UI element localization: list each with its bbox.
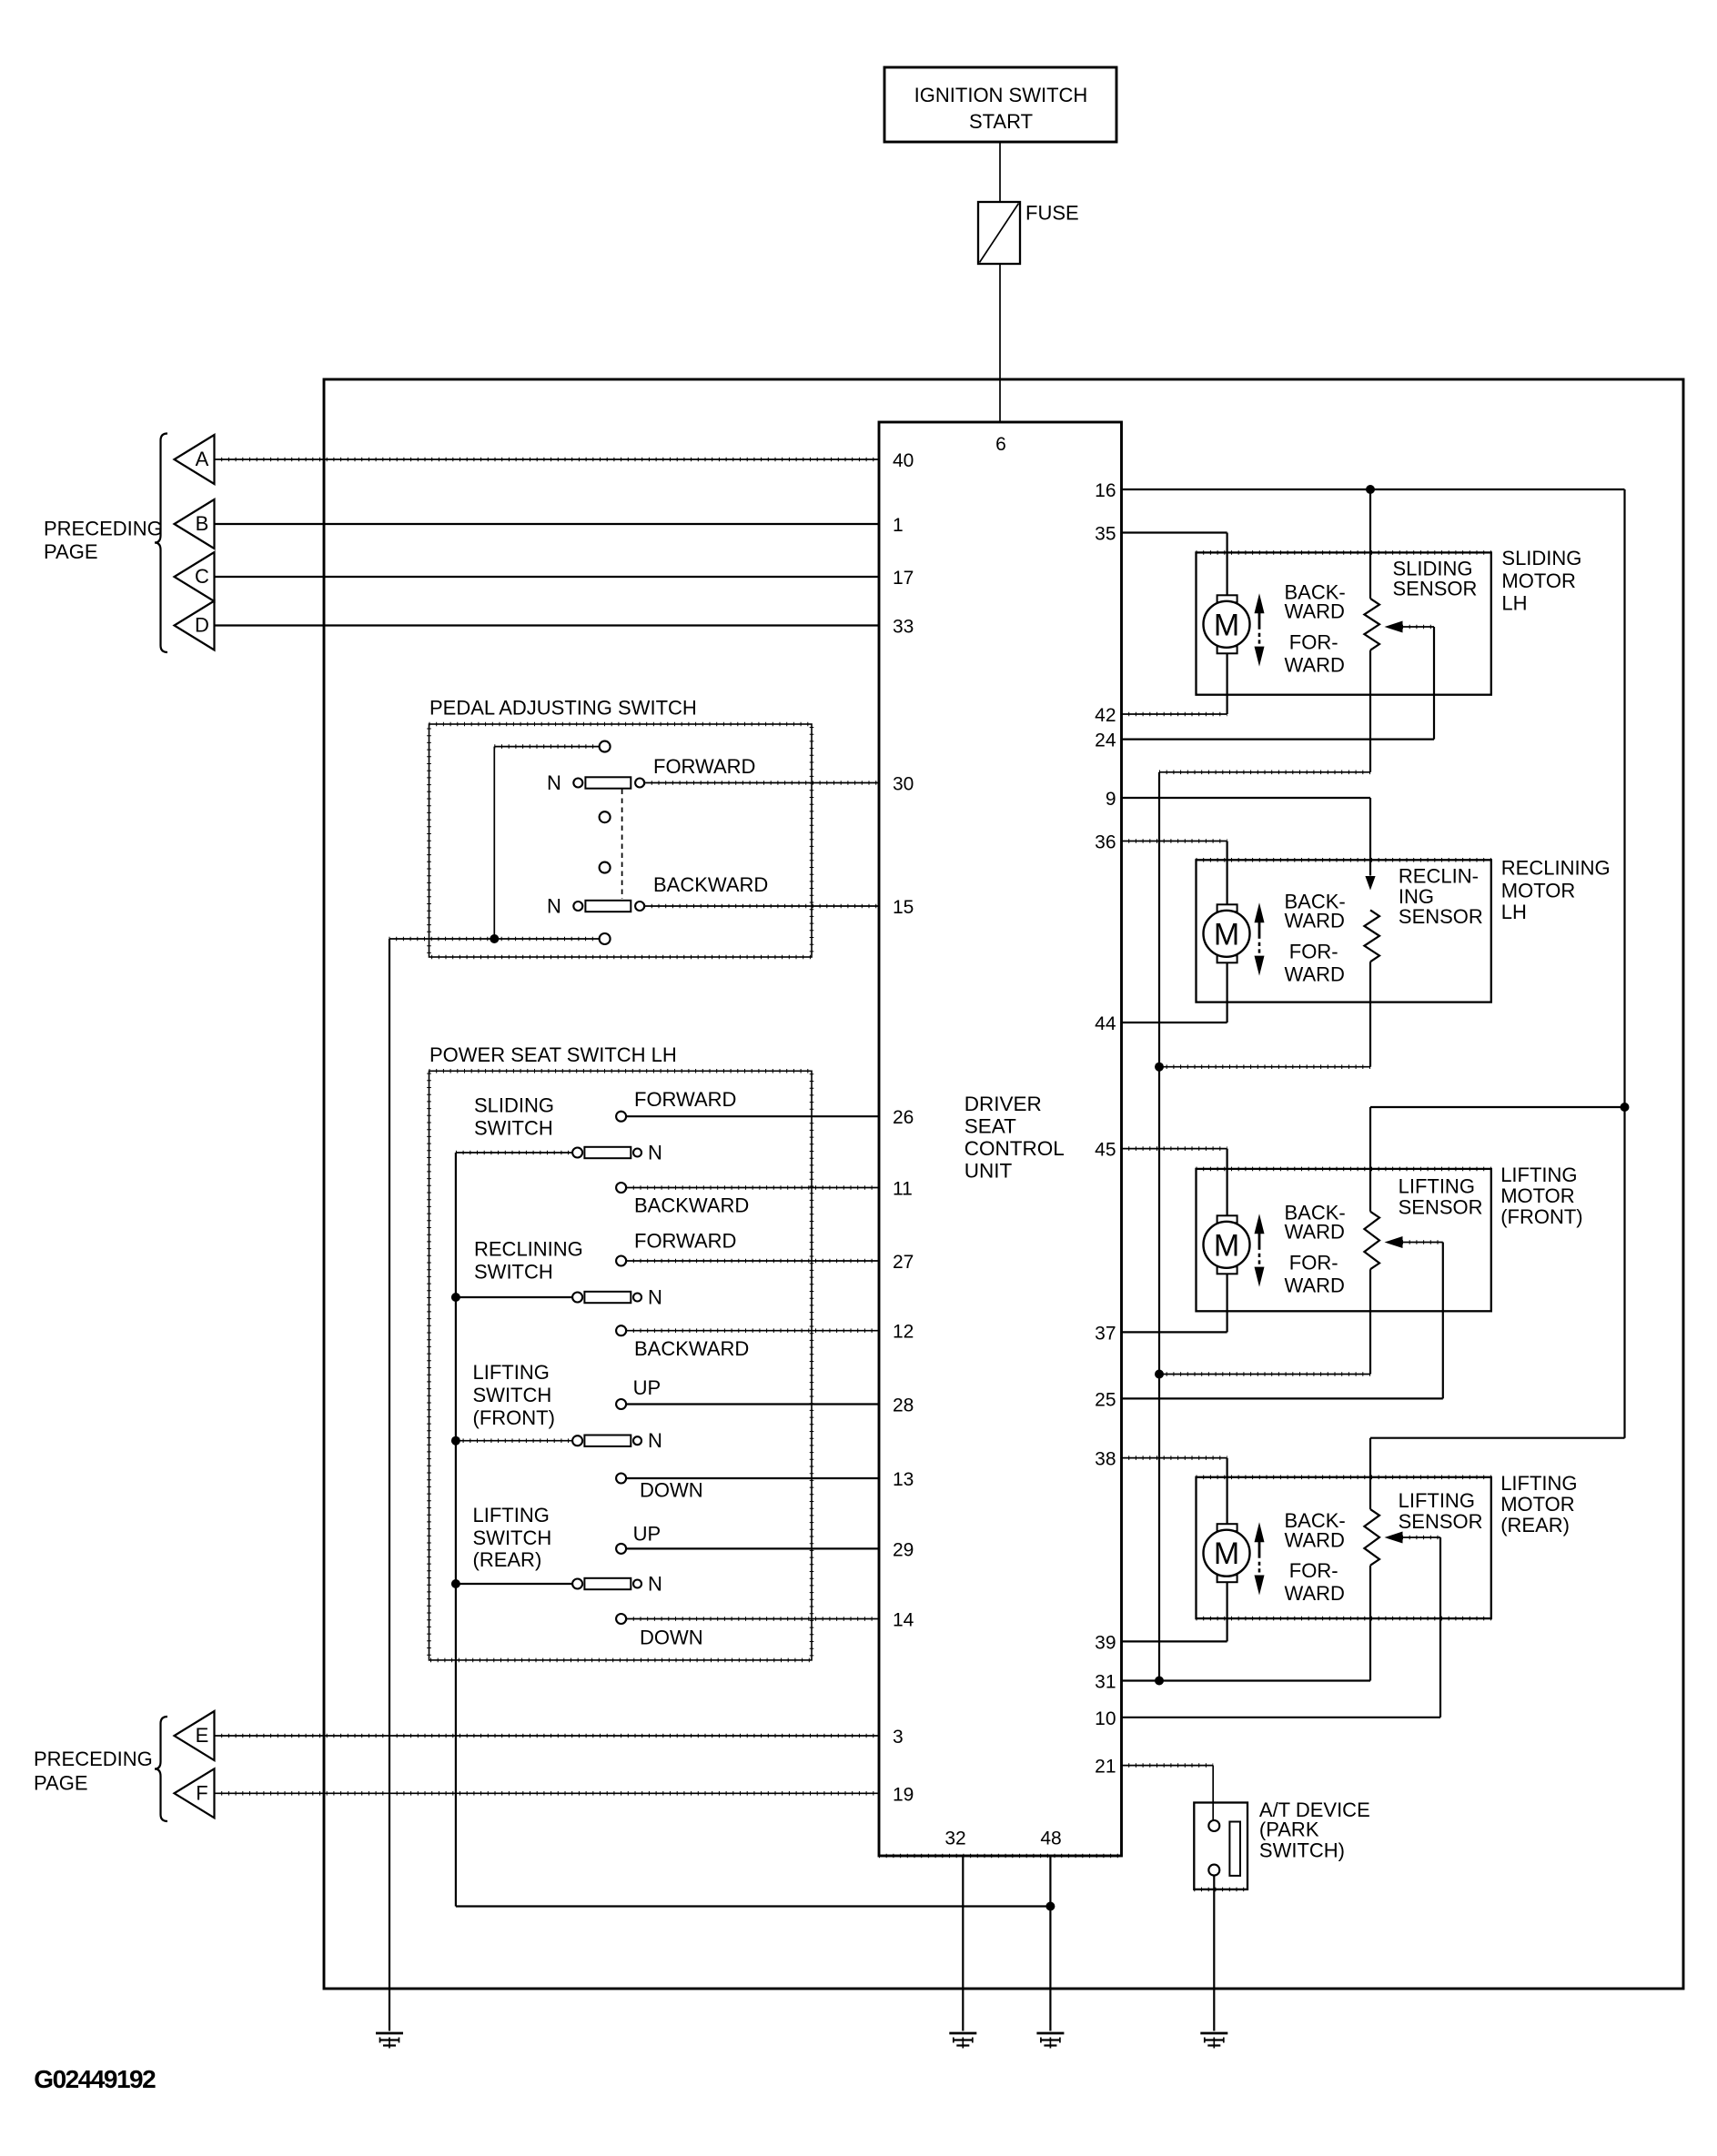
lifting front down terminal — [616, 1474, 626, 1484]
park switch terminal top — [1208, 1820, 1219, 1831]
pedal switch common vertical wire — [493, 747, 495, 939]
motor M lifting motor front — [1217, 1215, 1237, 1223]
svg-text:B: B — [196, 512, 209, 535]
wire pin 48 to ground — [1049, 1856, 1051, 2031]
svg-text:DOWN: DOWN — [640, 1479, 703, 1502]
wire pin 32 to ground — [962, 1856, 964, 2031]
driver seat control unit box — [879, 422, 1122, 1856]
wire bus to lifting front switch — [456, 1440, 572, 1442]
svg-text:SLIDING: SLIDING — [474, 1093, 554, 1116]
svg-text:12: 12 — [893, 1322, 914, 1343]
svg-text:SENSOR: SENSOR — [1399, 905, 1483, 928]
connector triangle D — [175, 601, 215, 650]
wire wiper to pin 10 — [1122, 1717, 1441, 1718]
svg-text:FOR-: FOR- — [1289, 630, 1338, 653]
svg-text:LIFTING: LIFTING — [1500, 1472, 1577, 1495]
lifting rear down terminal — [616, 1614, 626, 1624]
svg-text:24: 24 — [1095, 730, 1116, 751]
wire reclining sensor bottom lead — [1369, 962, 1371, 1067]
svg-text:N: N — [648, 1429, 662, 1452]
wire bus to lifting front sensor top — [1370, 1106, 1625, 1108]
svg-text:WARD: WARD — [1285, 1582, 1345, 1605]
svg-text:DRIVER: DRIVER — [965, 1093, 1042, 1115]
power seat switch box — [429, 1071, 813, 1660]
svg-text:30: 30 — [893, 774, 914, 795]
svg-text:37: 37 — [1095, 1323, 1116, 1344]
svg-text:BACKWARD: BACKWARD — [634, 1337, 749, 1360]
svg-text:SWITCH): SWITCH) — [1259, 1839, 1345, 1861]
wire wiper to pin 24 — [1122, 738, 1435, 740]
svg-text:(REAR): (REAR) — [1500, 1514, 1570, 1536]
wire reclining backward to pin 12 — [626, 1330, 879, 1332]
svg-text:28: 28 — [893, 1395, 914, 1416]
wire sliding sensor bottom lead — [1369, 650, 1371, 772]
svg-text:FOR-: FOR- — [1289, 940, 1338, 962]
power seat switch bus vertical — [455, 1153, 457, 1907]
junction sensor bus reclining — [1155, 1063, 1164, 1072]
sliding forward terminal — [616, 1112, 626, 1122]
svg-text:(REAR): (REAR) — [473, 1548, 542, 1571]
wire connector C to pin 17 — [215, 576, 880, 578]
svg-text:E: E — [196, 1724, 209, 1747]
svg-text:N: N — [547, 895, 561, 918]
svg-text:36: 36 — [1095, 832, 1116, 853]
svg-text:F: F — [196, 1781, 207, 1804]
reclining switch bar — [584, 1292, 631, 1303]
arrow up backward lifting motor front — [1255, 1214, 1265, 1234]
wire bus to sliding switch — [456, 1152, 572, 1154]
svg-text:BACKWARD: BACKWARD — [634, 1194, 749, 1217]
lifting motor front box — [1197, 1169, 1491, 1311]
brace preceding page bottom — [155, 1717, 167, 1821]
junction bus lifting front — [451, 1436, 460, 1446]
wire park switch to ground — [1213, 1876, 1215, 2031]
svg-text:DOWN: DOWN — [640, 1627, 703, 1649]
svg-text:(FRONT): (FRONT) — [1500, 1205, 1582, 1228]
wire fuse to unit pin 6 — [999, 264, 1001, 422]
svg-text:IGNITION SWITCH: IGNITION SWITCH — [914, 84, 1088, 106]
svg-text:RECLINING: RECLINING — [474, 1238, 583, 1261]
pedal forward contact circle left — [573, 779, 582, 788]
svg-text:LIFTING: LIFTING — [473, 1361, 550, 1384]
svg-text:SWITCH: SWITCH — [473, 1526, 552, 1549]
svg-text:LIFTING: LIFTING — [473, 1504, 550, 1526]
wire sliding forward to pin 26 — [626, 1115, 879, 1117]
park switch terminal bottom — [1208, 1865, 1219, 1876]
reclining forward terminal — [616, 1256, 626, 1266]
svg-text:1: 1 — [893, 515, 904, 536]
svg-text:SENSOR: SENSOR — [1393, 578, 1478, 600]
svg-text:FORWARD: FORWARD — [634, 1088, 736, 1111]
svg-text:25: 25 — [1095, 1389, 1116, 1410]
sensor bus vertical — [1158, 772, 1160, 1681]
wire pedal forward to pin 30 — [644, 782, 879, 784]
junction pedal common — [490, 934, 499, 943]
junction sensor bus lifting front — [1155, 1370, 1164, 1379]
svg-text:C: C — [195, 565, 209, 588]
wire connector B to pin 1 — [215, 523, 880, 525]
wire to top terminal — [494, 746, 599, 748]
far right bus vertical — [1623, 489, 1625, 1438]
svg-text:42: 42 — [1095, 705, 1116, 726]
svg-text:17: 17 — [893, 568, 914, 589]
sliding switch bar — [584, 1147, 631, 1158]
lifting front switch contact circle right — [633, 1436, 641, 1445]
svg-text:UNIT: UNIT — [965, 1160, 1013, 1183]
wire lifting motor rear bottom to unit — [1226, 1581, 1227, 1641]
svg-text:(FRONT): (FRONT) — [473, 1406, 555, 1429]
wire connector D to pin 33 — [215, 624, 880, 626]
svg-text:LH: LH — [1501, 592, 1527, 615]
wire wiper to pin 25 — [1122, 1397, 1443, 1399]
svg-text:13: 13 — [893, 1469, 914, 1490]
lifting front sensor zigzag — [1364, 1212, 1379, 1269]
svg-text:WARD: WARD — [1285, 910, 1345, 932]
svg-text:SLIDING: SLIDING — [1501, 547, 1581, 569]
sliding backward terminal — [616, 1183, 626, 1193]
svg-text:14: 14 — [893, 1610, 914, 1631]
svg-text:RECLIN-: RECLIN- — [1399, 865, 1479, 888]
svg-text:M: M — [1214, 1228, 1239, 1263]
wire bus to lifting rear switch — [456, 1583, 572, 1585]
wire sliding motor LH bottom to unit — [1226, 652, 1227, 714]
lifting rear switch bar — [584, 1578, 631, 1589]
svg-text:G02449192: G02449192 — [34, 2065, 156, 2093]
wire pedal common bottom — [389, 938, 600, 940]
svg-text:N: N — [648, 1142, 662, 1164]
wire lifting rear down to pin 14 — [626, 1618, 879, 1620]
pedal backward contact circle left — [573, 902, 582, 911]
svg-text:9: 9 — [1106, 789, 1116, 810]
svg-text:FOR-: FOR- — [1289, 1559, 1338, 1582]
svg-text:48: 48 — [1040, 1829, 1061, 1849]
svg-text:FUSE: FUSE — [1025, 202, 1079, 225]
lifting front wiper arrow — [1385, 1236, 1403, 1248]
svg-text:LH: LH — [1501, 901, 1527, 923]
wire lifting front down to pin 13 — [626, 1477, 879, 1479]
wire ignition switch to fuse — [999, 142, 1001, 202]
svg-text:3: 3 — [893, 1727, 904, 1748]
terminal circle top — [600, 741, 611, 752]
svg-text:N: N — [547, 771, 561, 794]
svg-text:WARD: WARD — [1285, 1221, 1345, 1244]
junction sensor bus pin 31 — [1155, 1677, 1164, 1686]
connector triangle E — [175, 1711, 215, 1760]
svg-text:31: 31 — [1095, 1672, 1116, 1693]
arrow down forward sliding motor LH — [1258, 633, 1261, 644]
wire sliding backward to pin 11 — [626, 1187, 879, 1189]
svg-text:WARD: WARD — [1285, 653, 1345, 676]
svg-text:PRECEDING: PRECEDING — [34, 1748, 153, 1770]
unit bottom edge ticks — [879, 1854, 1122, 1859]
reclining wiper arrow down — [1365, 876, 1375, 891]
svg-text:POWER SEAT SWITCH LH: POWER SEAT SWITCH LH — [429, 1043, 677, 1066]
svg-text:38: 38 — [1095, 1449, 1116, 1470]
svg-text:LIFTING: LIFTING — [1399, 1489, 1475, 1512]
reclining backward terminal — [616, 1325, 626, 1335]
ground pin 32 — [949, 2032, 976, 2035]
lifting motor rear box — [1197, 1477, 1491, 1618]
arrow down forward reclining motor LH — [1258, 942, 1261, 953]
motor M reclining motor LH — [1217, 904, 1237, 912]
svg-text:BACKWARD: BACKWARD — [653, 873, 768, 896]
svg-text:FORWARD: FORWARD — [653, 755, 755, 778]
lifting front switch bar — [584, 1436, 631, 1446]
svg-text:MOTOR: MOTOR — [1501, 879, 1575, 902]
svg-text:WARD: WARD — [1285, 962, 1345, 985]
svg-text:LIFTING: LIFTING — [1399, 1174, 1475, 1197]
svg-text:26: 26 — [893, 1107, 914, 1128]
brace preceding page top — [155, 434, 167, 653]
wire unit to sliding motor LH top — [1122, 531, 1227, 533]
ground wire from pedal switch — [389, 939, 390, 2031]
svg-text:10: 10 — [1095, 1708, 1116, 1729]
svg-text:RECLINING: RECLINING — [1501, 856, 1611, 879]
junction pin16 sliding sensor — [1366, 485, 1375, 494]
wire connector F to pin 19 — [215, 1792, 880, 1794]
fuse — [978, 202, 1020, 264]
pedal backward contact circle right — [635, 902, 644, 911]
pedal forward contact circle right — [635, 779, 644, 788]
sliding switch contact circle left — [572, 1148, 582, 1158]
svg-text:M: M — [1214, 917, 1239, 952]
svg-text:WARD: WARD — [1285, 600, 1345, 623]
svg-text:UP: UP — [633, 1376, 662, 1399]
terminal circle middle 1 — [600, 811, 611, 822]
lifting front up terminal — [616, 1399, 626, 1409]
motor M lifting motor rear — [1217, 1524, 1237, 1531]
svg-text:CONTROL: CONTROL — [965, 1137, 1065, 1160]
wire bus to reclining switch — [456, 1296, 572, 1298]
connector triangle F — [175, 1768, 215, 1818]
svg-text:M: M — [1214, 608, 1239, 642]
ground park switch — [1200, 2032, 1227, 2035]
wire pin 16 feed — [1122, 489, 1625, 490]
wire unit to lifting motor rear top — [1122, 1457, 1227, 1459]
lifting rear up terminal — [616, 1544, 626, 1554]
svg-text:32: 32 — [944, 1829, 965, 1849]
park switch slot — [1229, 1822, 1240, 1876]
wire connector E to pin 3 — [215, 1735, 880, 1737]
svg-text:35: 35 — [1095, 524, 1116, 545]
svg-text:M: M — [1214, 1536, 1239, 1571]
wire connector A to pin 40 — [215, 458, 880, 460]
svg-text:16: 16 — [1095, 480, 1116, 501]
svg-text:D: D — [195, 614, 209, 637]
svg-text:44: 44 — [1095, 1013, 1116, 1034]
svg-text:33: 33 — [893, 617, 914, 638]
lifting rear wiper arrow — [1385, 1532, 1403, 1544]
ignition switch box — [884, 67, 1116, 142]
wire lifting rear up to pin 29 — [626, 1547, 879, 1549]
junction far right bus — [1621, 1103, 1630, 1112]
lifting rear switch contact circle right — [633, 1580, 641, 1588]
wire bus to lifting rear sensor top — [1370, 1437, 1625, 1439]
sliding sensor wiper arrow — [1385, 621, 1403, 633]
reclining switch contact circle right — [633, 1294, 641, 1302]
junction bus reclining — [451, 1293, 460, 1302]
svg-text:PRECEDING: PRECEDING — [44, 518, 163, 540]
wire lifting rear sensor bottom lead — [1369, 1566, 1371, 1681]
svg-text:N: N — [648, 1286, 662, 1309]
reclining sensor zigzag — [1364, 910, 1379, 962]
wire lifting front sensor bottom lead — [1369, 1269, 1371, 1374]
svg-text:6: 6 — [995, 434, 1006, 455]
svg-text:FORWARD: FORWARD — [634, 1230, 736, 1253]
wire reclining forward to pin 27 — [626, 1260, 879, 1262]
A/T device box — [1194, 1803, 1247, 1889]
lifting front switch contact circle left — [572, 1436, 582, 1446]
lifting rear sensor zigzag — [1364, 1509, 1379, 1566]
wire pedal backward to pin 15 — [644, 905, 879, 907]
arrow down forward lifting motor rear — [1258, 1562, 1261, 1573]
wire unit to reclining motor LH top — [1122, 841, 1227, 842]
svg-text:SWITCH: SWITCH — [474, 1261, 553, 1284]
wire lifting front up to pin 28 — [626, 1403, 879, 1405]
svg-text:START: START — [969, 110, 1033, 133]
connector triangle C — [175, 552, 215, 601]
svg-text:SWITCH: SWITCH — [474, 1117, 553, 1140]
ground pin 48 — [1036, 2032, 1064, 2035]
svg-text:19: 19 — [893, 1784, 914, 1805]
reclining motor LH box — [1197, 860, 1491, 1002]
wire pin 31 sensor return — [1122, 1679, 1371, 1681]
svg-text:FOR-: FOR- — [1289, 1251, 1338, 1274]
sliding motor LH box — [1197, 552, 1491, 694]
svg-text:SEAT: SEAT — [965, 1115, 1016, 1138]
dashed mechanical link — [621, 790, 623, 900]
svg-text:N: N — [648, 1573, 662, 1596]
svg-text:MOTOR: MOTOR — [1500, 1184, 1574, 1207]
connector triangle A — [175, 435, 215, 484]
wire reclining motor LH bottom to unit — [1226, 962, 1227, 1023]
pedal forward switch bar — [585, 777, 631, 788]
svg-text:WARD: WARD — [1285, 1274, 1345, 1296]
arrow down forward lifting motor front — [1258, 1254, 1261, 1264]
svg-text:21: 21 — [1095, 1757, 1116, 1778]
svg-text:WARD: WARD — [1285, 1529, 1345, 1552]
arrow up backward reclining motor LH — [1255, 902, 1265, 922]
pedal adjusting switch box — [429, 724, 813, 957]
wire pin 9 to reclining wiper — [1122, 797, 1371, 799]
svg-text:PEDAL ADJUSTING SWITCH: PEDAL ADJUSTING SWITCH — [429, 697, 697, 720]
svg-text:MOTOR: MOTOR — [1500, 1493, 1574, 1516]
svg-text:UP: UP — [633, 1523, 662, 1546]
arrow up backward lifting motor rear — [1255, 1522, 1265, 1542]
svg-text:SENSOR: SENSOR — [1399, 1510, 1483, 1533]
svg-text:29: 29 — [893, 1539, 914, 1560]
svg-text:(PARK: (PARK — [1259, 1818, 1319, 1841]
connector triangle B — [175, 499, 215, 549]
sliding sensor zigzag — [1364, 599, 1379, 650]
terminal circle middle 2 — [600, 862, 611, 873]
power seat switch bus to pin 48 ground — [456, 1905, 1051, 1907]
svg-text:A: A — [196, 448, 209, 470]
ground pedal switch — [376, 2032, 403, 2035]
sliding switch contact circle right — [633, 1149, 641, 1157]
svg-text:PAGE: PAGE — [34, 1771, 88, 1794]
wire sliding sensor top lead — [1369, 489, 1371, 599]
junction bus lifting rear — [451, 1579, 460, 1588]
pedal backward switch bar — [585, 901, 631, 912]
outer boundary frame — [324, 379, 1683, 1989]
wire pin 21 to park switch — [1122, 1765, 1214, 1767]
lifting rear switch contact circle left — [572, 1579, 582, 1589]
motor M sliding motor LH — [1217, 595, 1237, 602]
svg-text:LIFTING: LIFTING — [1500, 1164, 1577, 1186]
svg-text:PAGE: PAGE — [44, 540, 98, 563]
svg-text:SENSOR: SENSOR — [1399, 1195, 1483, 1218]
terminal circle bottom — [600, 933, 611, 944]
reclining switch contact circle left — [572, 1293, 582, 1303]
svg-text:27: 27 — [893, 1252, 914, 1273]
svg-text:39: 39 — [1095, 1632, 1116, 1653]
svg-text:15: 15 — [893, 897, 914, 918]
wire lifting motor front bottom to unit — [1226, 1273, 1227, 1332]
svg-text:MOTOR: MOTOR — [1501, 569, 1575, 592]
arrow up backward sliding motor LH — [1255, 593, 1265, 613]
svg-text:11: 11 — [893, 1179, 913, 1200]
wire unit to lifting motor front top — [1122, 1148, 1227, 1150]
svg-text:SWITCH: SWITCH — [473, 1384, 552, 1406]
junction pin 48 bus — [1045, 1902, 1055, 1911]
svg-text:40: 40 — [893, 450, 914, 471]
svg-text:45: 45 — [1095, 1140, 1116, 1161]
